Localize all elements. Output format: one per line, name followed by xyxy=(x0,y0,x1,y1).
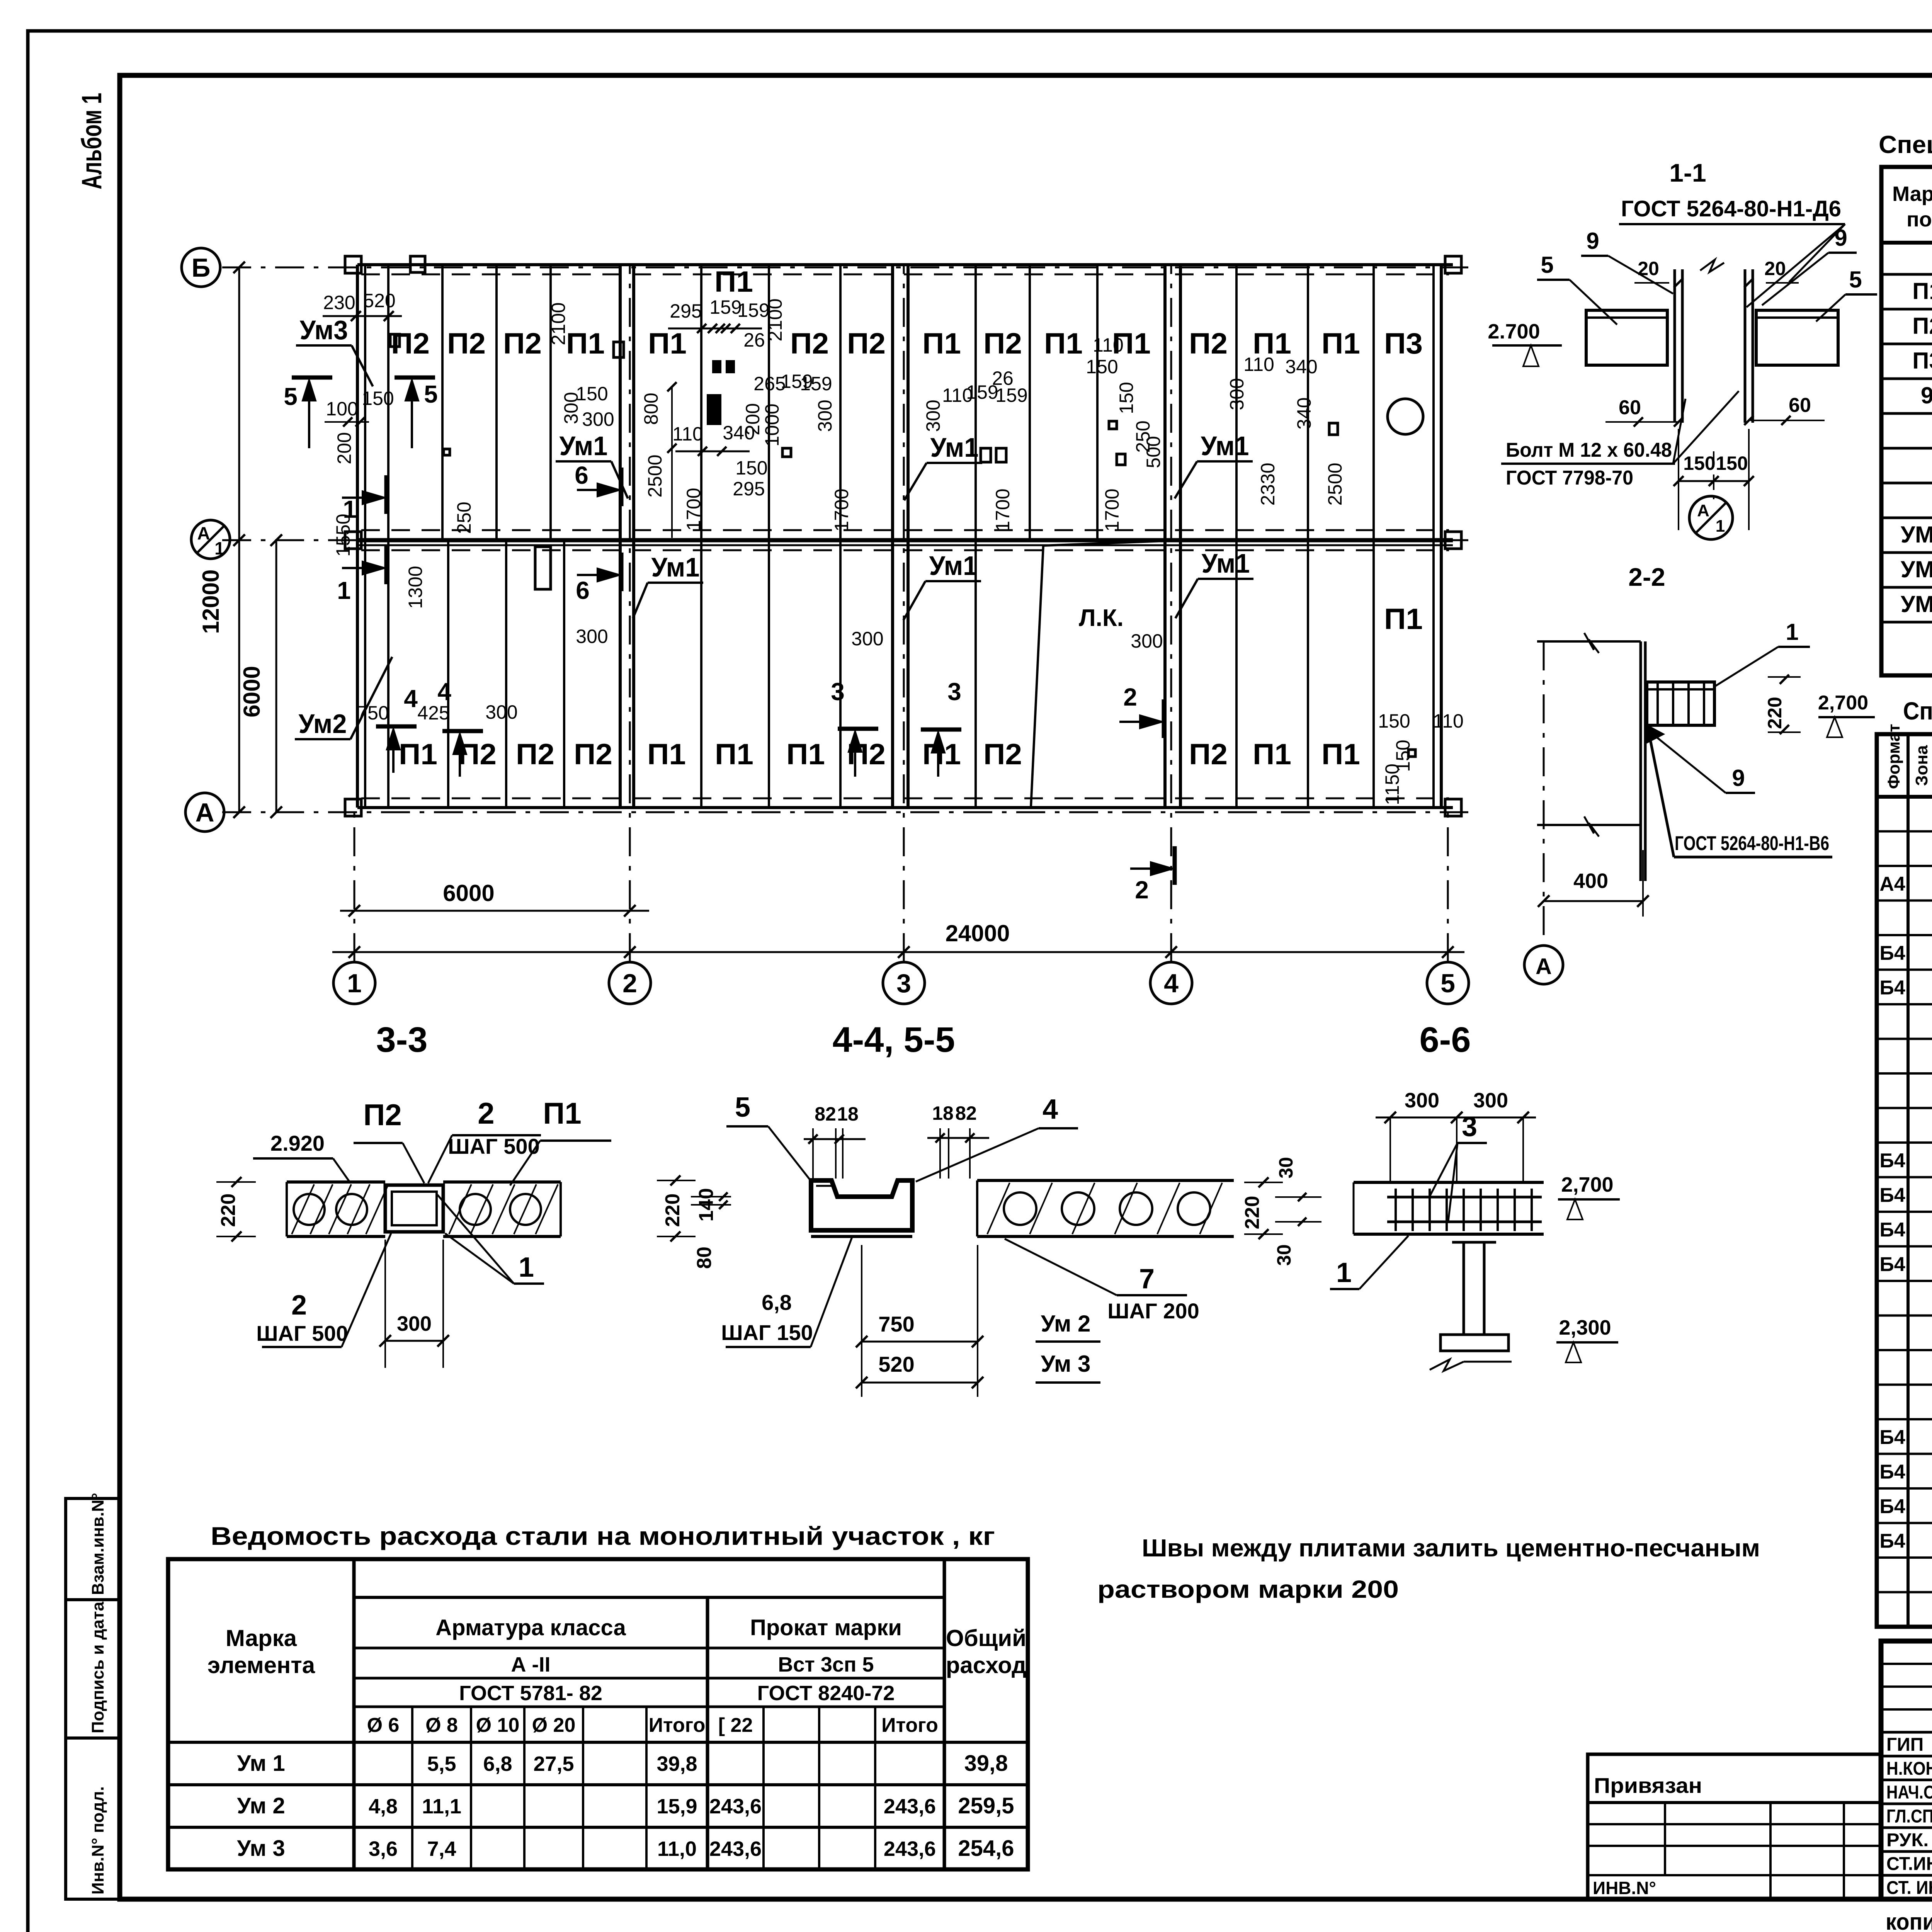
svg-text:А -II: А -II xyxy=(511,1653,551,1676)
svg-text:6,8: 6,8 xyxy=(762,1290,792,1315)
svg-text:5,5: 5,5 xyxy=(427,1752,456,1776)
svg-text:3: 3 xyxy=(831,678,845,706)
svg-text:1: 1 xyxy=(1786,619,1798,645)
svg-text:А: А xyxy=(197,523,210,543)
svg-text:Ум1: Ум1 xyxy=(651,552,700,582)
svg-text:340: 340 xyxy=(1293,397,1315,429)
svg-text:Швы между плитами залить ц: Швы между плитами залить цементно-песчан… xyxy=(1142,1534,1760,1562)
svg-text:200: 200 xyxy=(333,432,355,464)
svg-text:243,6: 243,6 xyxy=(709,1795,762,1818)
svg-text:243,6: 243,6 xyxy=(709,1837,762,1861)
svg-text:ГИП: ГИП xyxy=(1886,1735,1923,1755)
svg-text:Б4: Б4 xyxy=(1879,1461,1905,1483)
svg-text:20: 20 xyxy=(1764,258,1786,279)
svg-text:1700: 1700 xyxy=(831,488,852,531)
svg-text:П1: П1 xyxy=(1321,327,1360,360)
svg-text:Б: Б xyxy=(192,253,211,282)
svg-text:20: 20 xyxy=(1638,258,1659,279)
svg-text:П2: П2 xyxy=(847,327,886,360)
svg-text:300: 300 xyxy=(1473,1089,1508,1112)
svg-text:П1: П1 xyxy=(1253,738,1291,771)
svg-text:110: 110 xyxy=(1243,354,1274,375)
svg-text:5: 5 xyxy=(284,383,298,410)
svg-text:2500: 2500 xyxy=(644,454,666,497)
svg-text:П2: П2 xyxy=(1189,327,1228,360)
svg-text:60: 60 xyxy=(1619,396,1641,419)
svg-text:2: 2 xyxy=(1135,876,1149,904)
svg-text:ГЛ.СПЕЦ.: ГЛ.СПЕЦ. xyxy=(1886,1806,1932,1827)
svg-text:Ум3: Ум3 xyxy=(300,315,348,345)
svg-text:ГОСТ 5264-80-Н1-В6: ГОСТ 5264-80-Н1-В6 xyxy=(1675,832,1829,855)
svg-text:18: 18 xyxy=(837,1103,859,1125)
svg-text:ГОСТ 8240-72: ГОСТ 8240-72 xyxy=(757,1682,895,1705)
svg-text:6000: 6000 xyxy=(443,880,494,906)
svg-text:Итого: Итого xyxy=(649,1714,706,1736)
svg-text:1550: 1550 xyxy=(332,514,354,556)
svg-text:П1: П1 xyxy=(648,327,687,360)
svg-text:150: 150 xyxy=(1716,452,1748,474)
svg-text:А: А xyxy=(1697,501,1709,520)
svg-text:80: 80 xyxy=(693,1247,716,1269)
svg-text:300: 300 xyxy=(851,628,883,650)
svg-text:СТ. ИНЖ.: СТ. ИНЖ. xyxy=(1886,1878,1932,1898)
svg-text:500: 500 xyxy=(1143,436,1164,468)
svg-text:Ø 8: Ø 8 xyxy=(425,1714,458,1736)
svg-text:9: 9 xyxy=(1732,765,1745,791)
svg-text:150: 150 xyxy=(1116,382,1137,414)
svg-text:П1: П1 xyxy=(714,265,753,298)
svg-text:Ø 20: Ø 20 xyxy=(532,1714,576,1736)
svg-text:243,6: 243,6 xyxy=(884,1795,936,1818)
svg-text:150: 150 xyxy=(362,388,394,409)
svg-text:Ум1: Ум1 xyxy=(560,431,608,461)
svg-text:159: 159 xyxy=(800,373,832,395)
svg-text:300: 300 xyxy=(397,1312,432,1335)
svg-text:3: 3 xyxy=(1462,1111,1477,1142)
svg-text:259,5: 259,5 xyxy=(958,1793,1014,1818)
svg-text:1: 1 xyxy=(347,969,362,998)
svg-text:300: 300 xyxy=(1131,630,1163,652)
svg-text:поз.: поз. xyxy=(1906,208,1932,231)
svg-text:Марка: Марка xyxy=(226,1625,297,1651)
svg-text:П2: П2 xyxy=(1189,738,1228,771)
svg-text:2: 2 xyxy=(622,969,637,998)
svg-text:150: 150 xyxy=(576,383,608,405)
svg-text:300: 300 xyxy=(922,400,944,432)
svg-text:11,1: 11,1 xyxy=(422,1795,461,1818)
svg-text:П2: П2 xyxy=(503,327,542,360)
svg-text:1: 1 xyxy=(519,1252,534,1283)
svg-text:Зона: Зона xyxy=(1912,745,1931,786)
svg-text:250: 250 xyxy=(453,502,475,534)
svg-text:Прокат марки: Прокат марки xyxy=(750,1615,902,1640)
svg-text:Подпись и дата: Подпись и дата xyxy=(88,1602,107,1733)
svg-text:Привязан: Привязан xyxy=(1594,1773,1702,1798)
svg-text:Ø 10: Ø 10 xyxy=(476,1714,520,1736)
svg-text:5: 5 xyxy=(424,380,438,408)
svg-text:УМ 1: УМ 1 xyxy=(1901,522,1932,548)
svg-text:2500: 2500 xyxy=(1324,463,1346,505)
svg-text:РУК. ГР.: РУК. ГР. xyxy=(1886,1830,1932,1850)
svg-text:Ум1: Ум1 xyxy=(1201,431,1249,461)
svg-text:Болт М 12 х 60.48: Болт М 12 х 60.48 xyxy=(1506,439,1672,461)
svg-text:300: 300 xyxy=(485,701,517,723)
svg-text:254,6: 254,6 xyxy=(958,1836,1014,1861)
svg-text:элемента: элемента xyxy=(207,1652,315,1678)
svg-text:3: 3 xyxy=(947,678,961,706)
svg-text:Ум 2: Ум 2 xyxy=(237,1793,285,1818)
svg-text:200: 200 xyxy=(742,403,764,435)
svg-text:2,300: 2,300 xyxy=(1559,1316,1611,1339)
svg-text:Б4: Б4 xyxy=(1879,977,1905,999)
svg-text:Взам.инв.N°: Взам.инв.N° xyxy=(88,1493,107,1595)
svg-text:Б4: Б4 xyxy=(1879,1426,1905,1449)
svg-text:Спецификация элементов монол: Спецификация элементов монолитных участк… xyxy=(1903,697,1932,725)
svg-text:П1: П1 xyxy=(1044,327,1083,360)
svg-text:150: 150 xyxy=(1378,710,1410,732)
svg-text:П2: П2 xyxy=(983,327,1022,360)
svg-text:2330: 2330 xyxy=(1257,463,1279,505)
svg-text:60: 60 xyxy=(1789,394,1811,417)
svg-text:300: 300 xyxy=(582,408,614,430)
svg-text:6000: 6000 xyxy=(239,666,265,717)
svg-text:Формат: Формат xyxy=(1884,724,1903,789)
svg-text:Ум1: Ум1 xyxy=(930,432,979,463)
svg-text:159: 159 xyxy=(709,296,742,318)
svg-text:2: 2 xyxy=(1123,683,1137,711)
svg-text:82: 82 xyxy=(815,1103,836,1125)
svg-text:П1: П1 xyxy=(647,738,686,771)
svg-text:Ø 6: Ø 6 xyxy=(367,1714,400,1736)
svg-text:800: 800 xyxy=(640,393,662,425)
svg-text:2-2: 2-2 xyxy=(1628,563,1665,591)
svg-text:2.700: 2.700 xyxy=(1488,320,1540,343)
svg-text:П3: П3 xyxy=(1384,327,1423,360)
svg-text:Общий: Общий xyxy=(946,1625,1026,1651)
svg-text:П2: П2 xyxy=(1912,313,1932,339)
svg-text:1700: 1700 xyxy=(683,488,704,531)
svg-text:4,8: 4,8 xyxy=(369,1795,398,1818)
svg-text:24000: 24000 xyxy=(946,920,1010,946)
svg-text:П2: П2 xyxy=(983,738,1022,771)
svg-text:ШАГ 200: ШАГ 200 xyxy=(1107,1299,1199,1323)
svg-text:5: 5 xyxy=(735,1092,750,1123)
svg-text:750: 750 xyxy=(878,1312,914,1336)
svg-text:П2: П2 xyxy=(516,738,554,771)
svg-text:Б4: Б4 xyxy=(1879,1219,1905,1241)
svg-text:5: 5 xyxy=(1849,267,1862,293)
svg-text:2: 2 xyxy=(291,1290,307,1321)
svg-text:Ум1: Ум1 xyxy=(1202,548,1250,578)
svg-text:1700: 1700 xyxy=(1101,488,1123,531)
svg-text:П1: П1 xyxy=(566,327,605,360)
svg-text:1: 1 xyxy=(214,538,224,558)
svg-text:3,6: 3,6 xyxy=(369,1837,398,1861)
svg-text:750: 750 xyxy=(357,702,389,724)
svg-text:НАЧ.ОТД.: НАЧ.ОТД. xyxy=(1886,1782,1932,1803)
svg-text:Б4: Б4 xyxy=(1879,942,1905,964)
svg-text:А4: А4 xyxy=(1879,873,1905,895)
svg-text:УМ 3: УМ 3 xyxy=(1901,591,1932,617)
svg-text:39,8: 39,8 xyxy=(964,1751,1008,1776)
svg-text:243,6: 243,6 xyxy=(884,1837,936,1861)
svg-text:ШАГ 500: ШАГ 500 xyxy=(256,1321,348,1345)
svg-text:150: 150 xyxy=(1683,452,1715,474)
svg-text:Б4: Б4 xyxy=(1879,1253,1905,1276)
svg-text:ИНВ.N°: ИНВ.N° xyxy=(1593,1878,1656,1898)
svg-text:100: 100 xyxy=(326,398,358,420)
svg-text:Ум 2: Ум 2 xyxy=(1041,1311,1091,1337)
svg-text:П2: П2 xyxy=(363,1098,401,1132)
svg-text:ШАГ 500: ШАГ 500 xyxy=(448,1134,539,1158)
svg-text:5: 5 xyxy=(1440,969,1455,998)
svg-text:6,8: 6,8 xyxy=(483,1752,512,1776)
svg-text:230: 230 xyxy=(323,292,355,313)
svg-text:220: 220 xyxy=(1241,1196,1264,1230)
svg-text:2: 2 xyxy=(478,1096,494,1130)
svg-text:Марка,: Марка, xyxy=(1892,182,1932,206)
svg-text:П1: П1 xyxy=(1384,603,1423,636)
svg-text:2100: 2100 xyxy=(548,302,569,345)
svg-text:12000: 12000 xyxy=(198,570,224,634)
svg-text:Б4: Б4 xyxy=(1879,1150,1905,1172)
svg-text:340: 340 xyxy=(1285,356,1317,378)
svg-text:П2: П2 xyxy=(447,327,486,360)
svg-text:А: А xyxy=(195,798,214,827)
svg-text:6-6: 6-6 xyxy=(1420,1020,1471,1060)
svg-text:1-1: 1-1 xyxy=(1669,158,1706,187)
svg-text:300: 300 xyxy=(814,400,836,432)
svg-text:39,8: 39,8 xyxy=(656,1752,697,1776)
svg-text:1150: 1150 xyxy=(1381,764,1403,805)
svg-text:Ум 3: Ум 3 xyxy=(1041,1351,1091,1377)
svg-text:15,9: 15,9 xyxy=(656,1795,697,1818)
svg-text:ГОСТ 5264-80-Н1-Д6: ГОСТ 5264-80-Н1-Д6 xyxy=(1621,196,1841,221)
svg-text:Ум 3: Ум 3 xyxy=(237,1836,285,1861)
svg-text:Альбом 1: Альбом 1 xyxy=(77,93,107,189)
svg-text:Арматура класса: Арматура класса xyxy=(435,1615,626,1640)
svg-text:П1: П1 xyxy=(1321,738,1360,771)
svg-text:Л.К.: Л.К. xyxy=(1079,605,1124,631)
svg-text:2,700: 2,700 xyxy=(1561,1173,1613,1196)
svg-text:9: 9 xyxy=(1586,228,1599,254)
svg-text:4: 4 xyxy=(404,685,418,713)
svg-text:9: 9 xyxy=(1921,383,1932,408)
svg-text:Ум 1: Ум 1 xyxy=(237,1751,285,1776)
svg-text:ГОСТ 7798-70: ГОСТ 7798-70 xyxy=(1506,467,1633,489)
svg-text:П2: П2 xyxy=(790,327,829,360)
svg-text:110: 110 xyxy=(1433,710,1464,732)
svg-text:Н.КОНТР.: Н.КОНТР. xyxy=(1886,1759,1932,1779)
svg-text:Ум1: Ум1 xyxy=(929,551,978,581)
svg-text:520: 520 xyxy=(878,1352,914,1376)
svg-text:6: 6 xyxy=(575,461,588,489)
svg-text:Б4: Б4 xyxy=(1879,1184,1905,1207)
svg-text:82: 82 xyxy=(955,1102,977,1124)
svg-text:П1: П1 xyxy=(399,738,437,771)
svg-text:Вст 3сп 5: Вст 3сп 5 xyxy=(778,1653,874,1676)
svg-text:1: 1 xyxy=(1336,1257,1352,1288)
svg-text:1: 1 xyxy=(337,577,351,604)
svg-text:300: 300 xyxy=(1405,1089,1439,1112)
svg-text:раствором марки 200: раствором марки 200 xyxy=(1097,1575,1399,1603)
svg-text:Ум2: Ум2 xyxy=(299,709,347,739)
svg-text:4: 4 xyxy=(1164,969,1179,998)
svg-text:Б4: Б4 xyxy=(1879,1530,1905,1553)
svg-text:Спецификация элементов к схе: Спецификация элементов к схеме расположе… xyxy=(1879,131,1932,158)
svg-text:1: 1 xyxy=(1716,517,1725,536)
svg-text:159: 159 xyxy=(995,384,1027,406)
svg-text:150: 150 xyxy=(1086,356,1118,378)
svg-text:159: 159 xyxy=(737,299,769,321)
svg-text:Инв.N° подл.: Инв.N° подл. xyxy=(88,1786,107,1895)
svg-text:425: 425 xyxy=(417,702,449,724)
svg-text:П1: П1 xyxy=(786,738,825,771)
svg-text:1300: 1300 xyxy=(405,566,426,609)
svg-text:295: 295 xyxy=(670,300,702,322)
svg-text:300: 300 xyxy=(576,626,608,647)
svg-text:27,5: 27,5 xyxy=(533,1752,574,1776)
svg-text:295: 295 xyxy=(733,478,765,500)
svg-text:4: 4 xyxy=(437,678,451,706)
svg-text:4-4, 5-5: 4-4, 5-5 xyxy=(832,1020,955,1060)
svg-text:П2: П2 xyxy=(574,738,612,771)
svg-text:11,0: 11,0 xyxy=(657,1837,697,1861)
svg-text:ШАГ 150: ШАГ 150 xyxy=(721,1320,813,1345)
svg-text:Итого: Итого xyxy=(881,1714,938,1736)
svg-text:копировал Бабина: копировал Бабина xyxy=(1886,1909,1932,1932)
svg-text:расход: расход xyxy=(946,1652,1026,1678)
svg-text:1000: 1000 xyxy=(761,403,783,446)
svg-text:9: 9 xyxy=(1834,225,1847,251)
svg-text:26: 26 xyxy=(743,329,765,351)
svg-text:18: 18 xyxy=(932,1102,954,1124)
svg-text:П1: П1 xyxy=(922,327,961,360)
svg-text:150: 150 xyxy=(735,457,767,479)
svg-text:П1: П1 xyxy=(715,738,753,771)
svg-text:30: 30 xyxy=(1275,1157,1297,1179)
svg-text:300: 300 xyxy=(1226,378,1248,410)
svg-text:2,700: 2,700 xyxy=(1818,692,1868,714)
svg-text:110: 110 xyxy=(672,423,703,445)
svg-text:Ведомость расхода стали на: Ведомость расхода стали на монолитный уч… xyxy=(211,1522,995,1550)
svg-text:5: 5 xyxy=(1541,252,1553,278)
svg-text:2.920: 2.920 xyxy=(270,1131,325,1155)
svg-text:6: 6 xyxy=(576,577,590,604)
svg-text:П3: П3 xyxy=(1912,348,1932,374)
svg-text:220: 220 xyxy=(662,1194,684,1227)
svg-text:110: 110 xyxy=(1093,334,1124,356)
svg-text:220: 220 xyxy=(1764,697,1786,729)
svg-text:3: 3 xyxy=(896,969,911,998)
svg-text:А: А xyxy=(1536,954,1552,979)
svg-text:СТ.ИНЖ.: СТ.ИНЖ. xyxy=(1886,1854,1932,1874)
svg-text:П1: П1 xyxy=(1912,278,1932,304)
svg-text:7: 7 xyxy=(1139,1264,1155,1294)
svg-text:400: 400 xyxy=(1573,869,1608,893)
svg-text:УМ 2: УМ 2 xyxy=(1901,556,1932,582)
svg-text:1700: 1700 xyxy=(992,488,1014,531)
svg-text:ГОСТ 5781- 82: ГОСТ 5781- 82 xyxy=(459,1682,602,1705)
svg-text:220: 220 xyxy=(217,1194,240,1227)
svg-text:П1: П1 xyxy=(543,1096,581,1130)
svg-text:П2: П2 xyxy=(391,327,430,360)
svg-text:Б4: Б4 xyxy=(1879,1495,1905,1518)
svg-text:4: 4 xyxy=(1043,1094,1058,1125)
svg-text:7,4: 7,4 xyxy=(427,1837,456,1861)
svg-text:520: 520 xyxy=(363,290,395,311)
svg-text:3-3: 3-3 xyxy=(376,1020,428,1060)
svg-text:[ 22: [ 22 xyxy=(718,1714,753,1736)
svg-text:30: 30 xyxy=(1273,1244,1295,1266)
